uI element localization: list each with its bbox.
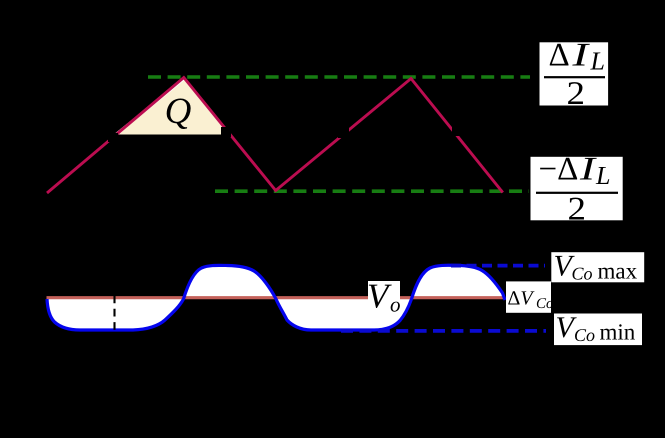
upper green dashed level line (+dIL/2) — [148, 75, 530, 79]
inductor current waveform iL (crimson triangle wave) — [47, 78, 503, 194]
label box -dIL/2 — [531, 152, 623, 228]
svg-text:Co: Co — [574, 325, 595, 345]
charge triangle Q (cream fill, white edge) — [117, 80, 230, 135]
erase notches on current waveform — [108, 133, 118, 142]
white sliver along triangle left edge — [117, 79, 185, 134]
blue dashed VCo max level line — [451, 264, 545, 268]
svg-text:2: 2 — [568, 191, 587, 227]
svg-text:ΔV: ΔV — [508, 288, 536, 310]
blue dashed VCo min level line — [341, 329, 546, 333]
svg-text:−Δ: −Δ — [539, 152, 579, 188]
svg-text:L: L — [590, 47, 605, 76]
svg-text:max: max — [598, 259, 638, 284]
white sliver along triangle right edge — [208, 108, 229, 135]
svg-text:Co: Co — [572, 264, 593, 284]
black dashed vertical marker in first valley — [113, 296, 115, 332]
svg-text:Δ: Δ — [549, 38, 570, 74]
label box VCo min — [554, 311, 642, 345]
svg-text:I: I — [571, 38, 591, 74]
label box Vo — [367, 277, 401, 317]
svg-text:I: I — [579, 152, 598, 188]
svg-text:L: L — [595, 161, 610, 190]
white ripple fill lobes between vo line and vco curve — [47, 265, 505, 330]
label box VCo max — [551, 250, 644, 284]
svg-text:Co: Co — [536, 296, 554, 312]
svg-text:V: V — [367, 277, 392, 316]
label box dIL/2 — [540, 38, 609, 113]
label box dVCo — [506, 281, 554, 312]
average output voltage line Vo (salmon) — [47, 296, 505, 299]
lower green dashed level line (-dIL/2) — [215, 189, 529, 193]
svg-text:min: min — [600, 320, 636, 345]
svg-text:Q: Q — [165, 91, 192, 132]
svg-text:2: 2 — [567, 76, 586, 112]
output capacitor voltage ripple curve vCo (blue) — [47, 265, 505, 330]
svg-text:o: o — [390, 293, 401, 317]
